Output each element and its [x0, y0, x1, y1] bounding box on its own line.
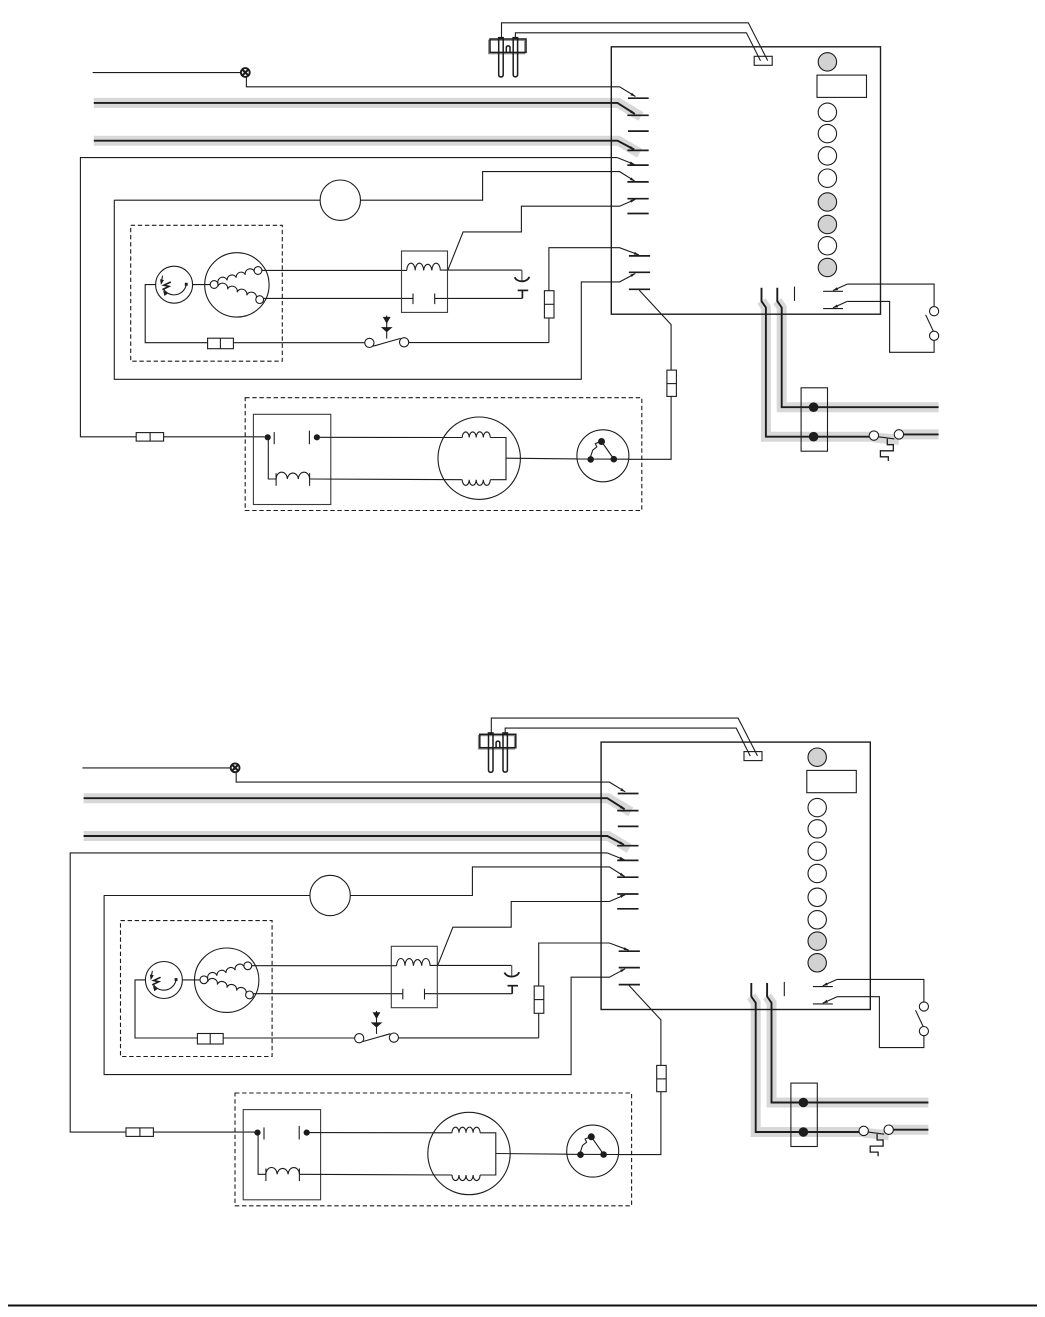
terminal 1 (bottom): [618, 793, 639, 795]
line switch (bottom): [868, 1132, 884, 1134]
wire blower switch to terminal 6 (top): [360, 172, 635, 201]
fuse F3 (top): [544, 291, 554, 318]
wire terminal 11 to fuse F4 (bottom): [629, 985, 661, 1065]
wire fuse F4 to plug (top): [629, 396, 671, 459]
plug male (bottom): [508, 985, 519, 987]
fan relay coil (bottom): [265, 1169, 267, 1182]
wire K1 to door switch (top): [847, 284, 934, 307]
ground lead (top): [880, 439, 893, 461]
wire outer loop (bottom): [70, 853, 607, 1132]
terminal 4 (top): [627, 149, 648, 151]
wire terminal 7 arrow (top): [630, 199, 635, 202]
wire fuse F1 to fan relay (top): [164, 436, 265, 438]
wire line switch out (bottom): [893, 1129, 928, 1131]
wire fan relay contact to motor (bottom): [307, 1132, 452, 1134]
wire flame switch to fuse F3 (bottom): [399, 1037, 539, 1039]
LED 6 (top): [818, 193, 836, 211]
wire gas valve to relay coil (top): [262, 269, 407, 271]
igniter wire 2 (bottom): [505, 728, 750, 756]
wire outer loop (top): [80, 158, 617, 437]
wire motor tap to plug (top): [506, 457, 577, 460]
wire spark to gas valve (bottom): [182, 979, 200, 981]
wire K1 to door switch (bottom): [837, 979, 924, 1002]
plug male (top): [518, 289, 529, 291]
wire lamp to terminal 1 (bottom): [236, 772, 625, 792]
wire outer loop to terminal 5 (bottom): [607, 853, 624, 860]
wire fuse F1 to fan relay (bottom): [153, 1131, 254, 1133]
wire field power L2 gray band (top): [94, 141, 640, 154]
gas valve relay box (bottom): [391, 946, 437, 1007]
igniter wire 1 (top): [502, 23, 768, 61]
igniter (bottom): [479, 736, 515, 749]
wire K2 to door switch (bottom): [837, 997, 924, 1048]
spark igniter (top): [156, 266, 193, 303]
terminal 9 (bottom): [619, 967, 640, 969]
wire fuse F2 to flame switch (top): [233, 342, 364, 344]
wire field power L1 (top): [94, 103, 635, 114]
wire terminal 9 arrow (top): [630, 273, 635, 277]
terminal 5 (top): [627, 164, 648, 166]
wire outer loop to terminal 5 (top): [617, 158, 634, 165]
control box (bottom): [601, 742, 870, 1009]
wire field pin1 gray band (top): [762, 301, 875, 437]
terminal 9 (top): [629, 271, 650, 273]
wire relay coil to plug (bottom): [430, 964, 512, 966]
junction box (bottom): [791, 1083, 817, 1146]
LED 3 (top): [818, 124, 836, 142]
plug female (bottom): [505, 972, 520, 977]
blower door interlock (bottom): [310, 875, 350, 915]
fuse F2 (top): [208, 338, 234, 349]
LED 7 (top): [818, 215, 836, 233]
wire F3 to terminal 10 (top): [549, 248, 639, 291]
wire lamp to terminal 1 (top): [246, 77, 635, 97]
wire relay coil to plug (top): [440, 269, 522, 271]
terminal 8 unused (top): [627, 213, 648, 215]
terminal 7 (top): [627, 198, 648, 200]
wire field power L1 gray band (top): [94, 103, 641, 117]
relay contact K2 (top): [823, 308, 843, 310]
terminal 2 (top): [627, 114, 648, 116]
LED 5 (bottom): [808, 864, 826, 882]
pilot assembly dashed box (bottom): [121, 921, 273, 1057]
terminal 6 (top): [627, 181, 648, 183]
wire pin1 (top): [762, 288, 870, 437]
wire field power L1 gray band (bottom): [84, 798, 631, 812]
wire fan relay contact to motor (top): [317, 436, 462, 438]
wire field pin1 out gray band (top): [899, 429, 939, 439]
terminal tick (top): [794, 287, 796, 301]
LED 1 (top): [818, 53, 836, 71]
flame rollout switch (top): [386, 316, 388, 339]
wire thermostat lead (bottom): [82, 767, 230, 769]
LED 3 (bottom): [808, 820, 826, 838]
wire fan relay coil to motor (top): [310, 478, 463, 481]
junction splice 1 (bottom): [799, 1098, 809, 1108]
wire flame switch to fuse F3 (top): [409, 342, 549, 344]
fuse F2 (bottom): [197, 1034, 223, 1045]
fuse F1 (bottom): [126, 1128, 153, 1137]
diagnostic chart frame (top): [817, 75, 867, 97]
wire thermostat lead (top): [93, 72, 241, 74]
wire gas valve to relay coil (bottom): [252, 965, 397, 967]
LED 4 (top): [818, 147, 836, 165]
LED 7 (bottom): [808, 911, 826, 929]
wire gas valve to relay contact (bottom): [253, 993, 402, 995]
wire to blower switch (bottom): [104, 895, 310, 897]
LED 2 (top): [818, 103, 836, 121]
spark igniter (bottom): [145, 962, 182, 999]
wire riser F3 (top): [548, 318, 550, 343]
wire motor tap to plug (bottom): [496, 1153, 567, 1156]
fuse F3 (bottom): [534, 986, 544, 1013]
LED 8 (bottom): [808, 932, 826, 950]
wire blower switch to terminal 6 (bottom): [350, 867, 625, 896]
relay contact (bottom): [402, 989, 404, 1000]
igniter wire 2 (top): [515, 33, 760, 61]
igniter (top): [489, 40, 525, 53]
wire terminal 7 arrow (bottom): [620, 895, 625, 898]
terminal 10 (top): [629, 255, 650, 257]
relay contact K2 (bottom): [813, 1003, 833, 1005]
terminal 4 (bottom): [617, 845, 638, 847]
wire pin1 (bottom): [751, 983, 859, 1132]
wire field pin1 switch blade gray band (top): [874, 437, 899, 440]
wire terminal 11 to fuse F4 (top): [639, 290, 671, 370]
wire field pin2 gray band (bottom): [767, 996, 928, 1102]
LED 9 (top): [818, 258, 836, 276]
wire fan relay coil to motor (bottom): [299, 1173, 452, 1176]
wire F3 to terminal 10 (bottom): [539, 943, 629, 986]
terminal 1 (top): [628, 97, 649, 99]
terminal 5 (bottom): [617, 859, 638, 861]
indicator lamp (top): [241, 68, 250, 77]
wire field power L1 (bottom): [84, 798, 625, 809]
wire field power L2 (top): [94, 141, 634, 150]
igniter connector (top): [754, 56, 772, 65]
fan relay box (top): [253, 414, 330, 504]
control box (top): [611, 47, 880, 314]
wire spark to gas valve (top): [193, 284, 211, 286]
wire spark to node (bottom): [135, 980, 197, 1038]
wire inner loop return (bottom): [104, 895, 625, 1074]
terminal 7 (bottom): [617, 893, 638, 895]
wire pin2 (top): [777, 288, 938, 408]
blower dashed box (bottom): [235, 1093, 632, 1206]
wire fuse F2 to flame switch (bottom): [223, 1037, 354, 1039]
junction splice 2 (bottom): [799, 1127, 809, 1137]
LED 5 (top): [818, 169, 836, 187]
igniter connector (bottom): [744, 752, 762, 761]
fuse F4 (top): [667, 370, 677, 396]
wire field pin1 gray band (bottom): [751, 996, 864, 1132]
blower door interlock (top): [320, 180, 360, 220]
wire field power L2 (bottom): [84, 836, 624, 845]
wire relay contact to plug (top): [435, 297, 523, 299]
blower motor (top): [438, 417, 520, 499]
wire relay to terminal 7 (bottom): [438, 895, 625, 965]
fuse F1 (top): [136, 433, 163, 442]
wire fan relay coil feed (bottom): [258, 1135, 266, 1175]
LED 1 (bottom): [808, 748, 826, 766]
wire K2 to door switch (top): [847, 301, 934, 352]
diagnostic chart frame (bottom): [807, 770, 857, 792]
fan relay contact (bottom): [254, 1130, 260, 1136]
blower dashed box (top): [245, 398, 642, 511]
wire pin2 (bottom): [767, 983, 928, 1103]
wire inner loop return (top): [114, 200, 635, 379]
wire relay contact to plug (bottom): [425, 993, 513, 995]
relay coil (bottom): [397, 959, 431, 966]
junction splice 1 (top): [809, 402, 819, 412]
LED 4 (bottom): [808, 842, 826, 860]
fan relay coil (top): [275, 473, 277, 486]
terminal 3 unused (top): [628, 130, 649, 132]
fan relay box (bottom): [243, 1110, 320, 1200]
wire relay to terminal 7 (top): [448, 199, 635, 269]
ground lead (bottom): [870, 1134, 883, 1156]
gas valve (bottom): [195, 948, 259, 1012]
footer rule: [8, 1305, 1037, 1307]
LED 9 (bottom): [808, 954, 826, 972]
terminal 11 (top): [629, 288, 650, 290]
LED 2 (bottom): [808, 798, 826, 816]
wire terminal 9 arrow (bottom): [620, 969, 625, 973]
wire field pin1 out gray band (bottom): [889, 1125, 929, 1135]
terminal 6 (bottom): [617, 876, 638, 878]
relay contact (top): [412, 294, 414, 305]
wire line switch out (top): [904, 433, 939, 435]
line switch (top): [879, 437, 895, 439]
fuse F4 (bottom): [657, 1065, 667, 1091]
igniter wire 1 (bottom): [491, 718, 757, 756]
terminal tick (bottom): [783, 982, 785, 996]
wire to blower switch (top): [114, 199, 320, 201]
relay coil (top): [407, 263, 441, 270]
wire fan relay coil feed (top): [268, 439, 276, 479]
gas valve (top): [205, 253, 269, 317]
terminal 3 unused (bottom): [618, 825, 639, 827]
terminal 10 (bottom): [619, 950, 640, 952]
relay contact K1 (bottom): [813, 986, 833, 988]
wire spark to node (top): [145, 285, 207, 343]
relay contact K1 (top): [823, 290, 843, 292]
wire field pin1 switch blade gray band (bottom): [864, 1133, 889, 1136]
motor plug (top): [577, 430, 629, 482]
door switch (top): [930, 307, 939, 316]
terminal 11 (bottom): [619, 984, 640, 986]
wire riser F3 (bottom): [538, 1013, 540, 1038]
gas valve relay box (top): [402, 251, 448, 312]
wire fuse F4 to plug (bottom): [619, 1092, 661, 1155]
indicator lamp (bottom): [231, 763, 240, 772]
plug female (top): [515, 277, 530, 282]
pilot assembly dashed box (top): [131, 225, 283, 361]
LED 6 (bottom): [808, 888, 826, 906]
LED 8 (top): [818, 237, 836, 255]
terminal 2 (bottom): [617, 810, 638, 812]
wire field pin2 gray band (top): [777, 301, 938, 407]
junction box (top): [801, 388, 827, 451]
terminal 8 unused (bottom): [617, 908, 638, 910]
wire field power L2 gray band (bottom): [84, 836, 630, 849]
wire gas valve to relay contact (top): [264, 297, 413, 299]
blower motor (bottom): [428, 1112, 510, 1194]
door switch (bottom): [919, 1002, 928, 1011]
flame rollout switch (bottom): [376, 1011, 378, 1034]
fan relay contact (top): [265, 434, 271, 440]
junction splice 2 (top): [809, 432, 819, 442]
motor plug (bottom): [567, 1125, 619, 1177]
